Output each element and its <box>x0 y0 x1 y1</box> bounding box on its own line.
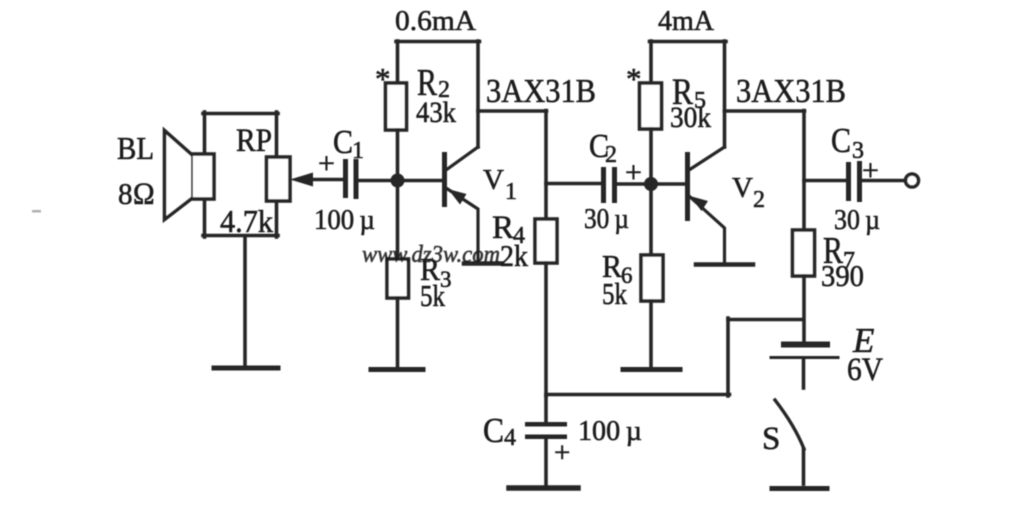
capacitor C4 <box>525 422 567 439</box>
wire RP loop top <box>203 112 278 116</box>
ground (switch S) <box>772 486 827 491</box>
potentiometer RP <box>267 157 291 201</box>
resistor R2 <box>386 83 407 130</box>
speaker BL <box>165 131 215 220</box>
svg-text:43k: 43k <box>416 96 456 129</box>
wire RP loop right upper <box>275 112 279 158</box>
wire junction to R6 <box>649 190 653 255</box>
output terminal <box>906 174 919 187</box>
wire R2 top to rail <box>396 41 400 83</box>
svg-text:+: + <box>625 156 642 189</box>
wire V1 collector rail <box>478 109 547 113</box>
resistor R3 <box>387 259 409 298</box>
svg-text:C: C <box>831 121 851 160</box>
ground (R6) <box>623 367 680 372</box>
wire collector node 2 to C3 <box>804 179 847 183</box>
svg-text:S: S <box>762 421 780 457</box>
battery E negative plate <box>771 356 838 359</box>
svg-text:+: + <box>554 437 570 469</box>
svg-text:0.6mA: 0.6mA <box>395 5 476 37</box>
svg-text:4mA: 4mA <box>658 6 715 37</box>
RP wiper arrow <box>290 173 343 187</box>
wire RP loop left lower <box>203 199 207 237</box>
wire RP loop bottom <box>203 234 278 238</box>
svg-text:V: V <box>483 164 504 196</box>
svg-text:www.dz3w.com: www.dz3w.com <box>362 242 500 268</box>
ground (V1 emitter) <box>464 261 502 266</box>
resistor R7 <box>793 230 815 276</box>
svg-text:3AX31B: 3AX31B <box>736 73 846 110</box>
resistor R5 <box>640 83 662 129</box>
capacitor C2 <box>601 167 617 203</box>
svg-text:100 µ: 100 µ <box>578 415 642 447</box>
wire R3 to ground <box>396 298 400 367</box>
svg-text:6V: 6V <box>847 352 883 388</box>
svg-text:100 µ: 100 µ <box>314 205 375 236</box>
wire R5 top to rail <box>649 41 653 83</box>
svg-text:C: C <box>483 411 504 450</box>
svg-text:3AX31B: 3AX31B <box>486 73 596 110</box>
wire C1 to V1 base <box>358 179 443 183</box>
svg-text:RP: RP <box>236 123 272 159</box>
scan artifact dash <box>32 210 41 213</box>
wire RP bottom to ground <box>243 237 247 365</box>
capacitor C3 <box>846 161 862 202</box>
svg-text:5k: 5k <box>420 278 445 313</box>
battery E positive plate <box>784 342 827 348</box>
wire rail to C4 <box>544 396 548 422</box>
wire V2 collector vertical <box>723 41 727 147</box>
wire top rail 0.6mA <box>396 40 480 44</box>
wire C2 to V2 base <box>616 182 686 186</box>
capacitor C1 <box>343 159 359 199</box>
svg-text:2: 2 <box>753 187 765 213</box>
wire to battery top <box>728 318 804 322</box>
wire RP loop right lower <box>275 200 279 237</box>
ground (C4) <box>509 485 578 491</box>
wire battery to switch <box>802 359 806 388</box>
svg-text:30 µ: 30 µ <box>584 203 629 235</box>
node junction V2 base / R5 / R6 <box>644 177 658 191</box>
ground (V2 emitter) <box>696 262 753 267</box>
svg-text:+: + <box>318 147 335 180</box>
switch S blade <box>775 400 804 449</box>
resistor R4 <box>535 219 557 263</box>
wire R5 bottom to junction <box>649 129 653 178</box>
wire R4 bottom down <box>544 263 548 396</box>
svg-text:1: 1 <box>352 138 364 164</box>
svg-text:8Ω: 8Ω <box>118 176 155 211</box>
transistor V2 <box>685 147 725 262</box>
svg-text:4.7k: 4.7k <box>220 203 273 239</box>
svg-text:2: 2 <box>605 142 617 168</box>
svg-text:390: 390 <box>821 258 864 293</box>
ground (speaker/RP) <box>214 366 278 371</box>
transistor V1 <box>442 147 478 262</box>
svg-text:+: + <box>862 154 879 187</box>
resistor R6 <box>641 255 663 301</box>
wire R2 bottom to junction <box>396 130 400 176</box>
wire switch to ground <box>802 449 806 484</box>
svg-text:2k: 2k <box>500 238 528 273</box>
svg-text:*: * <box>375 61 391 96</box>
wire R6 to ground <box>649 301 653 367</box>
svg-text:4: 4 <box>504 425 516 451</box>
wire collector node to C2 <box>546 182 602 186</box>
wire RP loop left upper <box>203 112 207 154</box>
wire collector node down <box>544 111 548 220</box>
wire C4 to ground <box>544 439 548 485</box>
ground (R3) <box>371 367 423 372</box>
wire riser to battery line <box>726 318 730 396</box>
svg-text:1: 1 <box>505 179 517 205</box>
wire junction to R3 <box>396 186 400 259</box>
wire V2 collector rail <box>725 109 805 113</box>
wire V1 collector vertical <box>476 41 480 147</box>
svg-text:5k: 5k <box>602 276 627 311</box>
svg-text:30k: 30k <box>670 101 711 134</box>
node junction V1 base / R2 / R3 <box>391 174 405 188</box>
wire collector node 2 down <box>802 111 806 231</box>
svg-text:BL: BL <box>117 130 154 166</box>
svg-text:*: * <box>626 61 642 96</box>
svg-text:V: V <box>732 172 753 204</box>
svg-text:C: C <box>333 124 353 161</box>
wire top rail 4mA <box>650 40 727 44</box>
wire R7 bottom to battery <box>802 276 806 342</box>
wire C3 to output terminal <box>861 179 904 183</box>
wire bottom rail <box>546 393 730 397</box>
